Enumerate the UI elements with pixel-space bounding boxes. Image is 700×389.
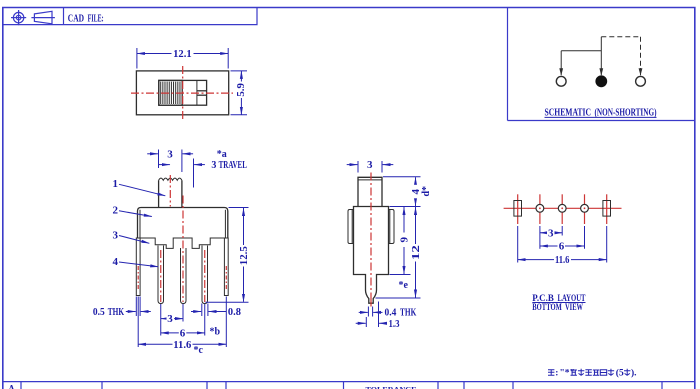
svg-text:12: 12 <box>410 244 422 260</box>
svg-text:*b: *b <box>210 327 221 338</box>
svg-text:CAD: CAD <box>68 13 84 24</box>
svg-text:3: 3 <box>167 148 173 160</box>
svg-text:THK: THK <box>108 307 124 318</box>
svg-text:11.6: 11.6 <box>555 254 570 266</box>
svg-text:TRAVEL: TRAVEL <box>219 160 248 171</box>
svg-text:THK: THK <box>400 308 416 319</box>
svg-text:SCHEMATIC: SCHEMATIC <box>545 107 592 118</box>
svg-text:A: A <box>8 384 15 389</box>
svg-text:2: 2 <box>113 205 119 217</box>
svg-text:*e: *e <box>399 280 409 291</box>
svg-text:3: 3 <box>367 159 373 171</box>
svg-text:12.5: 12.5 <box>238 246 250 265</box>
svg-text:6: 6 <box>559 241 565 253</box>
svg-text:4: 4 <box>113 256 119 268</box>
svg-text:12.1: 12.1 <box>173 48 192 60</box>
svg-text:VIEW: VIEW <box>565 303 583 313</box>
svg-text:*a: *a <box>217 149 227 160</box>
svg-text:d*: d* <box>421 186 432 197</box>
svg-text:0.4: 0.4 <box>385 308 397 319</box>
svg-text:TOLERANCE: TOLERANCE <box>366 385 417 389</box>
svg-text:3: 3 <box>113 230 119 242</box>
svg-text:11.6: 11.6 <box>173 339 191 351</box>
svg-text:5.9: 5.9 <box>235 83 247 97</box>
svg-text:3: 3 <box>211 160 216 171</box>
svg-text:BOTTOM: BOTTOM <box>532 303 562 313</box>
svg-text:9: 9 <box>399 236 411 242</box>
svg-text:1.3: 1.3 <box>389 319 400 330</box>
svg-text:*c: *c <box>194 345 204 356</box>
svg-text:).: ). <box>631 367 637 378</box>
svg-text:6: 6 <box>180 327 186 339</box>
svg-text::: : <box>555 368 558 378</box>
svg-text:FILE:: FILE: <box>88 13 104 24</box>
svg-text:3: 3 <box>548 227 554 239</box>
svg-text:0.5: 0.5 <box>93 307 105 318</box>
svg-text:1: 1 <box>113 178 119 190</box>
svg-text:(5: (5 <box>616 367 624 378</box>
svg-text:3: 3 <box>167 313 173 325</box>
svg-text:0.8: 0.8 <box>228 306 241 318</box>
svg-text:(NON-SHORTING): (NON-SHORTING) <box>595 107 657 118</box>
